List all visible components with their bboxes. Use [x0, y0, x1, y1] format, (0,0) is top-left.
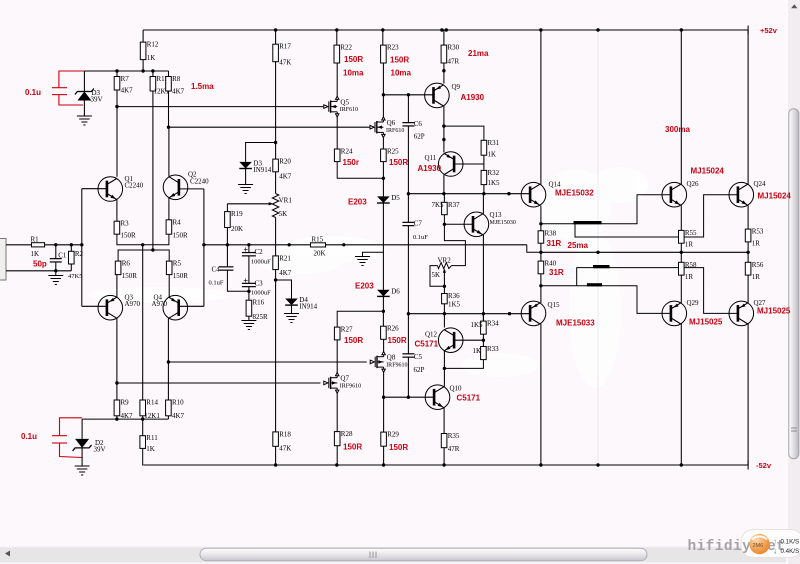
svg-text:150R: 150R — [173, 272, 189, 280]
resistor R2 — [69, 251, 75, 264]
resistor R53 — [745, 229, 751, 242]
svg-text:Q6: Q6 — [387, 119, 396, 127]
resistor R32 — [481, 170, 487, 184]
resistor R37 — [443, 194, 445, 203]
resistor R55 — [679, 230, 685, 243]
svg-text:39V: 39V — [94, 446, 106, 454]
svg-text:R7: R7 — [121, 75, 130, 83]
ground — [355, 257, 370, 266]
svg-text:47K: 47K — [279, 59, 291, 67]
svg-text:Q24: Q24 — [754, 180, 767, 188]
diode D4 — [285, 299, 298, 306]
svg-text:↑: ↑ — [773, 537, 777, 546]
svg-text:R37: R37 — [448, 201, 460, 209]
wire Q7 gate row y383 — [117, 382, 321, 384]
resistor R40 — [538, 261, 544, 274]
wire Q29 collector — [680, 324, 682, 465]
wire Q10 emitter to R35 — [443, 408, 445, 434]
svg-text:D6: D6 — [391, 287, 400, 295]
svg-text:R14: R14 — [146, 399, 158, 407]
wire Q9 base row — [383, 94, 433, 96]
svg-text:R11: R11 — [146, 434, 158, 442]
svg-text:R12: R12 — [147, 41, 159, 49]
svg-text:-52v: -52v — [756, 461, 772, 470]
transistor Q27 — [729, 301, 754, 326]
wire input lower — [6, 270, 71, 272]
resistor R13 — [150, 77, 156, 92]
svg-text:150R: 150R — [343, 443, 362, 452]
svg-text:A1930: A1930 — [461, 93, 485, 102]
wire cap column — [407, 93, 410, 96]
svg-text:R31: R31 — [488, 139, 500, 147]
svg-text:Q26: Q26 — [687, 180, 700, 188]
svg-text:150R: 150R — [344, 55, 363, 64]
resistor R19 — [225, 212, 231, 228]
wire Q12 collector — [443, 314, 445, 328]
transistor Q29 — [662, 301, 687, 326]
zener D3 39V — [83, 71, 85, 92]
svg-text:R15: R15 — [312, 236, 324, 244]
wire Q5 source to R24 — [336, 117, 338, 149]
wire to Q26 base — [541, 195, 671, 224]
svg-text:4K7: 4K7 — [279, 269, 292, 277]
svg-text:R20: R20 — [279, 158, 291, 166]
resistor R1 — [32, 243, 45, 247]
wire R37 to Q13 base — [444, 215, 473, 225]
resistor R6 — [115, 261, 121, 275]
net speed overlay — [749, 534, 799, 556]
wire Q11 collector — [443, 175, 445, 194]
pen smudge 1 — [574, 221, 602, 224]
wire R1 to base column — [45, 244, 82, 246]
svg-text:7K5: 7K5 — [432, 201, 445, 209]
wire Q13 base to VR2 — [444, 224, 465, 265]
wire R27 top bend — [337, 311, 383, 327]
svg-text:150R: 150R — [390, 56, 409, 65]
wire Q27 collector — [747, 324, 749, 465]
resistor R34 — [481, 321, 487, 334]
svg-text:20K: 20K — [231, 225, 243, 233]
svg-text:47R: 47R — [448, 58, 460, 66]
wire Q2 collector — [168, 127, 170, 176]
svg-text:62P: 62P — [414, 132, 425, 140]
svg-text:150R: 150R — [388, 336, 407, 345]
resistor R37 — [442, 202, 448, 214]
wire Q12 base — [454, 339, 483, 341]
net speed overlay bubble — [741, 530, 800, 558]
resistor R20 — [273, 159, 279, 172]
wire R40 to Q15 emitter node — [540, 274, 542, 303]
transistor Q10 — [425, 385, 450, 410]
svg-text:+52v: +52v — [760, 26, 778, 35]
svg-text:25ma: 25ma — [568, 241, 589, 250]
resistor R58 — [679, 262, 685, 275]
capacitor 0.1u (red, top) — [52, 71, 84, 105]
wire Q11 base — [454, 163, 484, 165]
svg-text:MJ15024: MJ15024 — [691, 167, 725, 176]
wire row A emitters — [117, 234, 169, 245]
svg-text:R36: R36 — [448, 292, 460, 300]
svg-text:1K5: 1K5 — [448, 300, 461, 308]
wire R13 down to row250 — [152, 91, 154, 250]
ground — [284, 314, 299, 323]
wire base column Q1-Q3 — [81, 189, 83, 307]
mosfet Q8 — [370, 352, 385, 373]
svg-text:Q7: Q7 — [340, 375, 349, 383]
resistor R9 — [114, 400, 120, 416]
svg-text:hifidiy: hifidiy — [688, 539, 752, 555]
svg-text:R22: R22 — [340, 44, 352, 52]
wire Q8 drain down — [383, 372, 385, 432]
svg-text:Q15: Q15 — [548, 301, 561, 309]
capacitor 0.1u (red, bottom) — [52, 418, 82, 458]
diode D4 IN914 branch — [276, 280, 292, 299]
resistor R34 — [482, 314, 484, 321]
wire Q7 source to R28 — [336, 393, 338, 431]
resistor R36 — [443, 286, 445, 293]
wire R26 to Q8 — [383, 339, 385, 351]
resistor R14 — [140, 400, 146, 416]
-52V rail — [143, 464, 748, 466]
resistor R8 — [166, 77, 172, 92]
svg-text:C5: C5 — [414, 353, 423, 361]
wire Q10 base row — [384, 396, 435, 398]
svg-text:150R: 150R — [389, 443, 408, 452]
wire upper drive row y193.7 — [408, 193, 530, 195]
wire R58 to Q29 — [680, 275, 682, 303]
svg-text:Q5: Q5 — [340, 98, 349, 106]
transistor Q15 — [521, 301, 546, 326]
resistor R11 — [140, 436, 146, 449]
svg-text:4K7: 4K7 — [172, 412, 185, 420]
resistor R27 — [334, 327, 340, 340]
UI chrome: bottom scrollbar — [0, 546, 800, 564]
wire Q9 emitter-collector column — [443, 84, 445, 86]
wire Q3 collector to R9 — [116, 318, 118, 400]
svg-text:Q8: Q8 — [387, 354, 396, 362]
svg-text:R10: R10 — [172, 399, 184, 407]
resistor R22 — [334, 45, 340, 63]
svg-text:39V: 39V — [91, 96, 103, 104]
svg-text:A970: A970 — [125, 300, 141, 308]
svg-text:IRF610: IRF610 — [386, 128, 404, 134]
wire branch to Q24 base — [575, 195, 738, 237]
wire Q14 emitter node — [540, 206, 542, 231]
svg-text:0.1u: 0.1u — [21, 432, 37, 441]
transistor Q13 — [464, 212, 489, 237]
svg-text:31R: 31R — [549, 268, 564, 277]
wire output row y252.3 — [541, 251, 748, 253]
svg-text:Q13: Q13 — [490, 211, 503, 219]
resistor R26 — [381, 326, 387, 339]
svg-text:Q11: Q11 — [425, 154, 437, 162]
zener D2 — [75, 439, 89, 448]
transistor Q9 — [425, 83, 450, 108]
svg-text:R55: R55 — [685, 229, 697, 237]
ground — [241, 321, 256, 330]
resistor R3 — [114, 221, 120, 234]
wire Q12 emitter to Q10 collector — [443, 351, 445, 387]
ground — [75, 466, 90, 475]
svg-text:10ma: 10ma — [343, 69, 364, 78]
svg-text:+: + — [243, 245, 248, 254]
resistor R35 — [441, 434, 447, 448]
wire R27 to Q7 — [336, 340, 338, 373]
svg-text:VR1: VR1 — [279, 196, 293, 204]
svg-text:MJ15025: MJ15025 — [689, 318, 723, 327]
capacitor C6 62P — [402, 123, 414, 126]
svg-text:31R: 31R — [547, 239, 562, 248]
transistor Q26 — [662, 182, 687, 207]
zener D3 — [77, 92, 91, 101]
svg-text:0.4K/S: 0.4K/S — [781, 548, 800, 555]
resistor R25 — [381, 149, 387, 162]
wire R12 bottom — [142, 60, 144, 71]
capacitor C7 0.1uF — [402, 222, 414, 225]
wire Q14 collector to +rail — [540, 30, 542, 185]
wire Q3 base — [82, 305, 107, 307]
svg-text:Q29: Q29 — [687, 299, 700, 307]
svg-text:150R: 150R — [389, 158, 408, 167]
svg-text:1K: 1K — [488, 151, 497, 159]
wire branch to Q27 base — [577, 268, 738, 314]
svg-text:1R: 1R — [685, 241, 694, 249]
wire Q1 collector — [116, 107, 118, 177]
resistor R5 — [166, 261, 172, 275]
wire Q26 emitter to R55 — [680, 206, 682, 231]
wire R8 to Q6 gate row y127.2 — [168, 91, 170, 127]
wire Q6 source to R25 — [382, 138, 384, 149]
svg-text:C2: C2 — [255, 248, 264, 256]
svg-text:150R: 150R — [122, 272, 138, 280]
svg-text:R6: R6 — [122, 260, 131, 268]
wire Q13 emitter down — [482, 235, 484, 321]
wire row y71 — [84, 70, 168, 72]
resistor R4 — [166, 220, 172, 234]
svg-text:MJE15032: MJE15032 — [555, 189, 594, 198]
resistor R2 — [70, 245, 72, 252]
svg-text:R16: R16 — [253, 299, 265, 307]
svg-text:E203: E203 — [355, 282, 374, 291]
wire Q2 base to feedback column — [179, 188, 204, 190]
svg-text:10ma: 10ma — [391, 69, 412, 78]
svg-text:4K7: 4K7 — [121, 87, 134, 95]
resistor R38 — [538, 231, 544, 243]
wire R14 column — [142, 245, 144, 400]
svg-text:R30: R30 — [448, 44, 460, 52]
wire R56 to Q27 — [747, 275, 749, 303]
diode D3 IN914 branch — [246, 143, 276, 162]
wire Q1 emitter to R3 — [116, 200, 118, 222]
ground — [77, 116, 92, 125]
pen smudge 2 — [587, 283, 602, 286]
svg-text:4K7: 4K7 — [172, 88, 185, 96]
VR2 left loop — [430, 266, 444, 287]
transistor Q12 — [438, 328, 463, 353]
ground — [48, 276, 63, 285]
svg-text:R32: R32 — [488, 169, 500, 177]
resistor R23 — [382, 30, 384, 45]
UI chrome: right scrollbar — [786, 0, 800, 564]
svg-text:Q14: Q14 — [549, 181, 562, 189]
svg-text:1R: 1R — [752, 239, 761, 247]
resistor R30 — [443, 30, 445, 45]
svg-text:MJ15025: MJ15025 — [757, 307, 791, 316]
wire Q8 gate row y362 — [168, 361, 366, 363]
svg-text:R23: R23 — [387, 44, 399, 52]
resistor R7 — [114, 77, 120, 91]
svg-text:R19: R19 — [231, 210, 243, 218]
resistor R33 — [481, 347, 487, 360]
svg-text:R8: R8 — [172, 75, 181, 83]
svg-text:R29: R29 — [387, 431, 399, 439]
svg-text:R27: R27 — [341, 326, 353, 334]
transistor Q3 — [98, 295, 123, 320]
resistor R30 — [441, 45, 447, 63]
zener D2 39V — [81, 419, 83, 439]
mosfet Q6 — [370, 117, 385, 138]
capacitor C2 1000uF — [248, 245, 250, 253]
wire Q24 collector — [747, 30, 749, 185]
resistor R56 — [745, 262, 751, 275]
svg-text:IN914: IN914 — [253, 166, 271, 174]
wire VR1 wiper — [227, 203, 269, 205]
svg-text:E203: E203 — [348, 198, 367, 207]
wire Q1 base — [82, 188, 107, 190]
svg-text:R25: R25 — [387, 148, 399, 156]
svg-text:Q9: Q9 — [452, 83, 461, 91]
resistor R31 — [481, 140, 487, 155]
svg-text:MJE15033: MJE15033 — [556, 319, 595, 328]
diode D3 — [239, 162, 252, 169]
input connector J1 — [0, 239, 6, 281]
diode D5 — [377, 196, 390, 203]
svg-text:1R: 1R — [685, 273, 694, 281]
wire feedback node y=244.8 — [204, 244, 311, 246]
resistor R16 — [246, 300, 252, 316]
resistor R21 — [273, 256, 279, 270]
resistor R28 — [334, 432, 340, 446]
potentiometer VR2 5K — [438, 263, 452, 269]
svg-text:IRF9610: IRF9610 — [340, 384, 361, 390]
potentiometer VR1 5K — [275, 172, 277, 194]
svg-text:C6: C6 — [414, 120, 423, 128]
svg-text:300ma: 300ma — [665, 125, 690, 134]
wire to R31 — [444, 126, 484, 140]
svg-text:1K: 1K — [147, 54, 156, 62]
resistor R36 — [442, 294, 448, 304]
svg-text:5K: 5K — [432, 271, 441, 279]
svg-text:R3: R3 — [121, 220, 130, 228]
svg-text:R53: R53 — [752, 228, 764, 236]
svg-text:MJ15024: MJ15024 — [758, 192, 792, 201]
resistor R22 — [336, 30, 338, 45]
svg-text:R56: R56 — [752, 261, 764, 269]
resistor R17 — [273, 44, 279, 62]
mid ground tap — [363, 252, 384, 256]
wire Q24 emitter to R53 — [747, 206, 749, 230]
svg-text:IN914: IN914 — [299, 303, 317, 311]
svg-text:+: + — [243, 276, 248, 285]
svg-text:C1: C1 — [58, 252, 67, 260]
diode D6 — [377, 290, 390, 297]
svg-text:R9: R9 — [121, 399, 130, 407]
svg-text:R26: R26 — [387, 325, 399, 333]
resistor R15 — [311, 243, 326, 247]
svg-text:Q12: Q12 — [425, 331, 438, 339]
pen smudge 3 — [593, 265, 610, 268]
+52V rail — [143, 29, 748, 31]
wire lower drive row y313.7 — [408, 313, 530, 315]
resistor R19 — [226, 204, 228, 212]
svg-text:1000uF: 1000uF — [251, 289, 271, 296]
wire R11 to -rail — [142, 448, 145, 465]
svg-text:↓: ↓ — [773, 546, 777, 555]
ground — [238, 185, 253, 194]
wire Q13 collector — [482, 194, 484, 214]
resistor R24 — [334, 149, 340, 162]
resistor R18 — [273, 432, 279, 446]
svg-text:A1930: A1930 — [418, 164, 442, 173]
wire Q26 collector — [680, 30, 682, 185]
mosfet Q7 — [324, 373, 339, 394]
svg-text:150R: 150R — [344, 336, 363, 345]
capacitor C3 1000uF — [242, 283, 256, 286]
svg-text:50p: 50p — [33, 260, 47, 269]
svg-text:R24: R24 — [341, 148, 353, 156]
svg-text:R34: R34 — [487, 320, 499, 328]
svg-text:C7: C7 — [414, 220, 423, 228]
wire Q4 collector to R10 — [167, 318, 169, 400]
svg-text:1K: 1K — [473, 347, 482, 355]
resistor R17 — [275, 30, 277, 44]
svg-text:R21: R21 — [279, 254, 291, 262]
svg-text:150R: 150R — [121, 232, 137, 240]
svg-text:R38: R38 — [545, 229, 557, 237]
capacitor C5 62P — [402, 354, 414, 357]
svg-text:1K5: 1K5 — [471, 321, 484, 329]
svg-text:MJE15030: MJE15030 — [490, 220, 516, 226]
resistor R12 — [140, 42, 146, 60]
svg-text:0.1K/S: 0.1K/S — [781, 539, 800, 546]
svg-text:R4: R4 — [173, 218, 182, 226]
ground input — [55, 271, 57, 276]
svg-text:150r: 150r — [343, 158, 359, 167]
svg-text:1R: 1R — [752, 273, 761, 281]
svg-text:0.1uF: 0.1uF — [413, 234, 428, 241]
wire R33 bend to Q12 emitter — [444, 360, 483, 369]
wire R7 to Q5 gate row y106.6 — [116, 90, 118, 107]
wire to Q6 — [382, 95, 384, 117]
transistor Q11 — [438, 152, 463, 177]
svg-text:C4: C4 — [212, 266, 221, 274]
wire Q3 emitter — [116, 275, 118, 298]
svg-text:1.5ma: 1.5ma — [191, 82, 214, 91]
svg-text:R28: R28 — [341, 430, 353, 438]
wire R22 to Q5 — [336, 63, 338, 96]
svg-text:47K5: 47K5 — [68, 273, 82, 280]
svg-text:IRF9610: IRF9610 — [386, 363, 407, 369]
svg-text:47K: 47K — [279, 444, 291, 452]
svg-text:R33: R33 — [487, 345, 499, 353]
svg-text:R1: R1 — [31, 235, 40, 243]
capacitor C4 — [226, 245, 228, 267]
wire Q15 collector to -rail — [540, 324, 542, 465]
transistor Q1 — [98, 177, 123, 202]
svg-text:R17: R17 — [279, 43, 291, 51]
svg-text:2M6: 2M6 — [753, 543, 764, 549]
svg-text:R40: R40 — [545, 260, 557, 268]
